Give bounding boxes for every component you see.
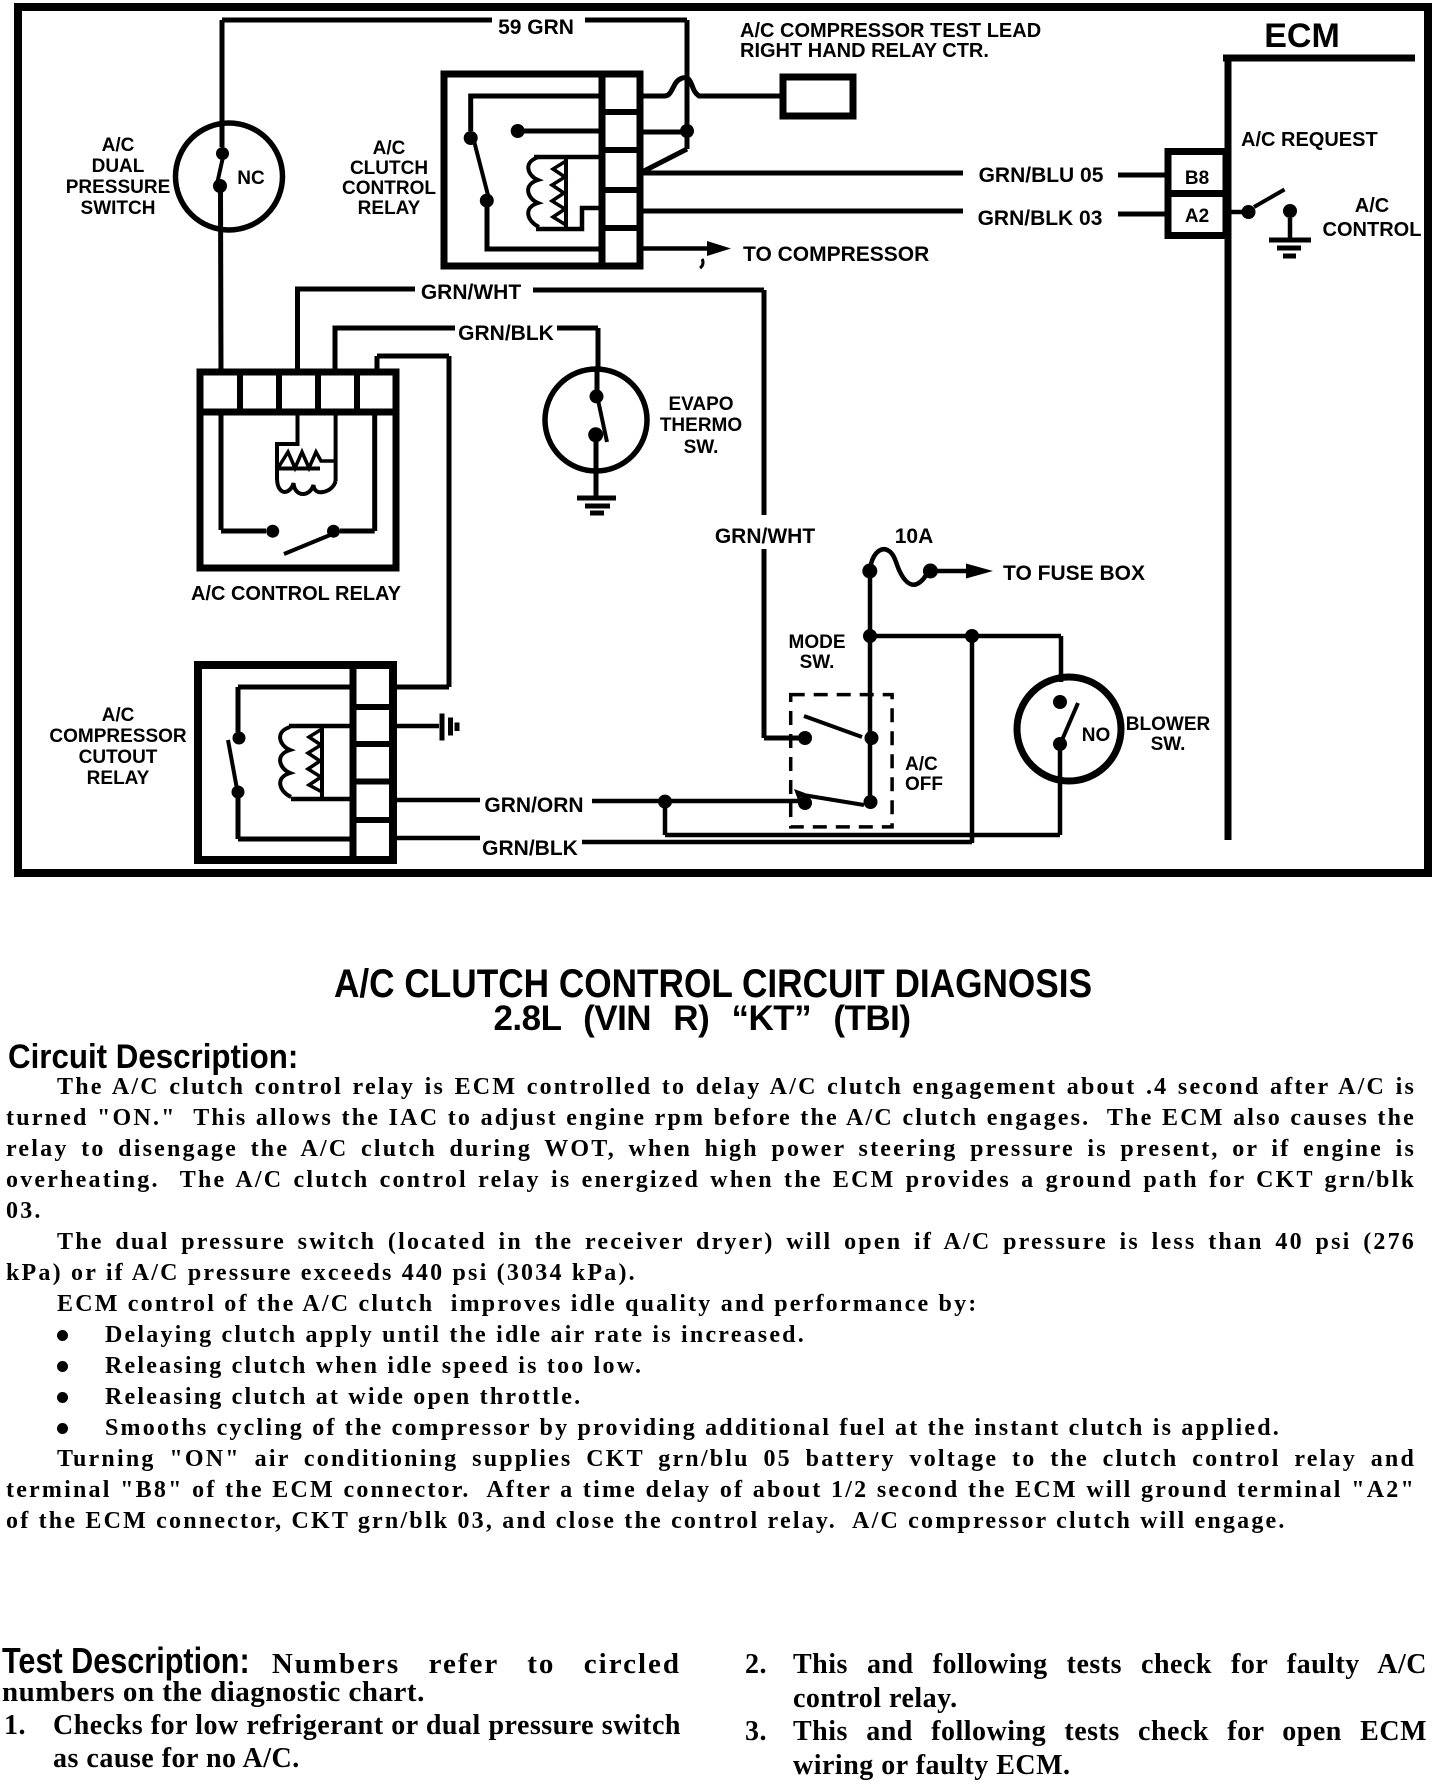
svg-text:EVAPO: EVAPO <box>668 394 733 415</box>
wire test lead with hop over 59 GRN <box>641 78 783 96</box>
svg-text:RELAY: RELAY <box>87 768 150 789</box>
wire relay pin 2 to 59 GRN junction <box>641 130 687 135</box>
A/C dual pressure switch <box>176 20 283 230</box>
svg-text:MODE: MODE <box>789 632 846 653</box>
svg-text:NO: NO <box>1082 725 1111 746</box>
wire GRN/ORN <box>393 800 800 801</box>
mode switch lower contacts <box>794 789 878 810</box>
svg-text:CLUTCH: CLUTCH <box>350 158 428 179</box>
coil cutout relay <box>280 726 353 799</box>
svg-text:CONTROL: CONTROL <box>342 178 436 199</box>
clutch control relay switch contacts <box>464 96 602 249</box>
svg-text:GRN/BLU 05: GRN/BLU 05 <box>979 164 1104 187</box>
svg-text:CONTROL: CONTROL <box>1323 219 1422 241</box>
svg-text:GRN/BLK: GRN/BLK <box>482 837 578 860</box>
wire GRN/WHT <box>298 289 801 738</box>
svg-text:CUTOUT: CUTOUT <box>79 747 158 768</box>
wire GRN/ORN branch to fuse line <box>665 636 1060 843</box>
svg-text:10A: 10A <box>895 525 934 548</box>
svg-text:GRN/WHT: GRN/WHT <box>715 525 815 548</box>
mode switch dashed box <box>791 695 892 827</box>
mode switch upper contacts <box>798 716 879 745</box>
wire GRN/BLK bottom <box>393 838 972 842</box>
svg-text:BLOWER: BLOWER <box>1126 714 1211 735</box>
svg-text:ECM: ECM <box>1264 17 1340 55</box>
wire fuse to mode switch vertical <box>868 578 873 802</box>
svg-text:GRN/BLK: GRN/BLK <box>458 322 554 345</box>
svg-text:PRESSURE: PRESSURE <box>66 177 171 198</box>
wire dual pressure switch to A/C control relay <box>218 190 224 372</box>
svg-text:TO COMPRESSOR: TO COMPRESSOR <box>743 243 929 266</box>
svg-text:A/C: A/C <box>373 138 406 159</box>
svg-text:A/C: A/C <box>905 754 938 775</box>
svg-text:GRN/ORN: GRN/ORN <box>484 794 583 817</box>
svg-text:B8: B8 <box>1185 168 1209 189</box>
svg-text:A/C: A/C <box>102 705 135 726</box>
coil A/C control relay <box>277 412 336 494</box>
svg-text:GRN/BLK 03: GRN/BLK 03 <box>978 207 1103 230</box>
svg-text:DUAL: DUAL <box>92 156 145 177</box>
fuse 10A <box>862 549 938 584</box>
node junction x972 <box>965 629 979 643</box>
relay A/C compressor cutout relay box and connector strip <box>198 665 393 860</box>
svg-text:RIGHT HAND RELAY CTR.: RIGHT HAND RELAY CTR. <box>740 40 989 62</box>
A/C control relay switch contacts <box>221 412 375 554</box>
cutout relay switch contacts <box>228 687 353 839</box>
svg-text:SWITCH: SWITCH <box>81 198 156 219</box>
wire GRN/BLK 03 <box>641 211 1168 214</box>
svg-text:NC: NC <box>237 168 265 189</box>
ground ECM <box>1269 240 1311 256</box>
ground evapo thermo switch <box>577 498 616 513</box>
svg-text:SW.: SW. <box>800 652 835 673</box>
node junction fuse/blower line <box>863 629 877 643</box>
wire GRN/BLU 05 <box>641 173 1168 175</box>
svg-text:OFF: OFF <box>905 774 943 795</box>
svg-text:A/C REQUEST: A/C REQUEST <box>1241 129 1378 151</box>
ECM box lines <box>1223 58 1415 840</box>
svg-text:COMPRESSOR: COMPRESSOR <box>49 726 187 747</box>
svg-text:59 GRN: 59 GRN <box>498 16 574 39</box>
svg-text:A/C COMPRESSOR TEST LEAD: A/C COMPRESSOR TEST LEAD <box>740 20 1041 42</box>
svg-text:A/C: A/C <box>1355 195 1389 217</box>
blower switch <box>1017 677 1121 835</box>
relay A/C control relay box and connector strip <box>200 372 396 568</box>
svg-text:GRN/WHT: GRN/WHT <box>421 281 521 304</box>
wire 59 GRN <box>222 20 687 171</box>
relay A/C clutch control relay box <box>444 74 640 266</box>
wire control relay pin 5 to cutout relay pin 1 <box>377 356 449 687</box>
node junction 59 GRN / relay pin 2 <box>680 124 694 138</box>
svg-text:TO FUSE BOX: TO FUSE BOX <box>1003 562 1145 585</box>
svg-text:A/C CONTROL RELAY: A/C CONTROL RELAY <box>191 583 402 605</box>
wire TO FUSE BOX arrow <box>937 564 993 579</box>
svg-text:SW.: SW. <box>1151 734 1186 755</box>
evapo thermo switch <box>545 369 647 498</box>
coil clutch control relay <box>528 157 602 229</box>
test lead box <box>783 77 853 116</box>
svg-text:SW.: SW. <box>684 437 719 458</box>
connector terminals B8 / A2 <box>1168 152 1226 236</box>
node junction GRN/ORN <box>658 795 672 809</box>
ECM internal A/C control switch <box>1226 190 1297 240</box>
svg-text:THERMO: THERMO <box>660 415 742 436</box>
wire GRN/BLK to evapo thermo switch <box>335 328 598 372</box>
wire fuse line to blower switch <box>870 636 1061 682</box>
svg-text:A2: A2 <box>1185 206 1209 227</box>
svg-text:RELAY: RELAY <box>358 198 421 219</box>
wire TO COMPRESSOR with arrow <box>642 241 731 268</box>
ground cutout relay chassis <box>393 714 457 741</box>
svg-text:A/C: A/C <box>102 135 135 156</box>
